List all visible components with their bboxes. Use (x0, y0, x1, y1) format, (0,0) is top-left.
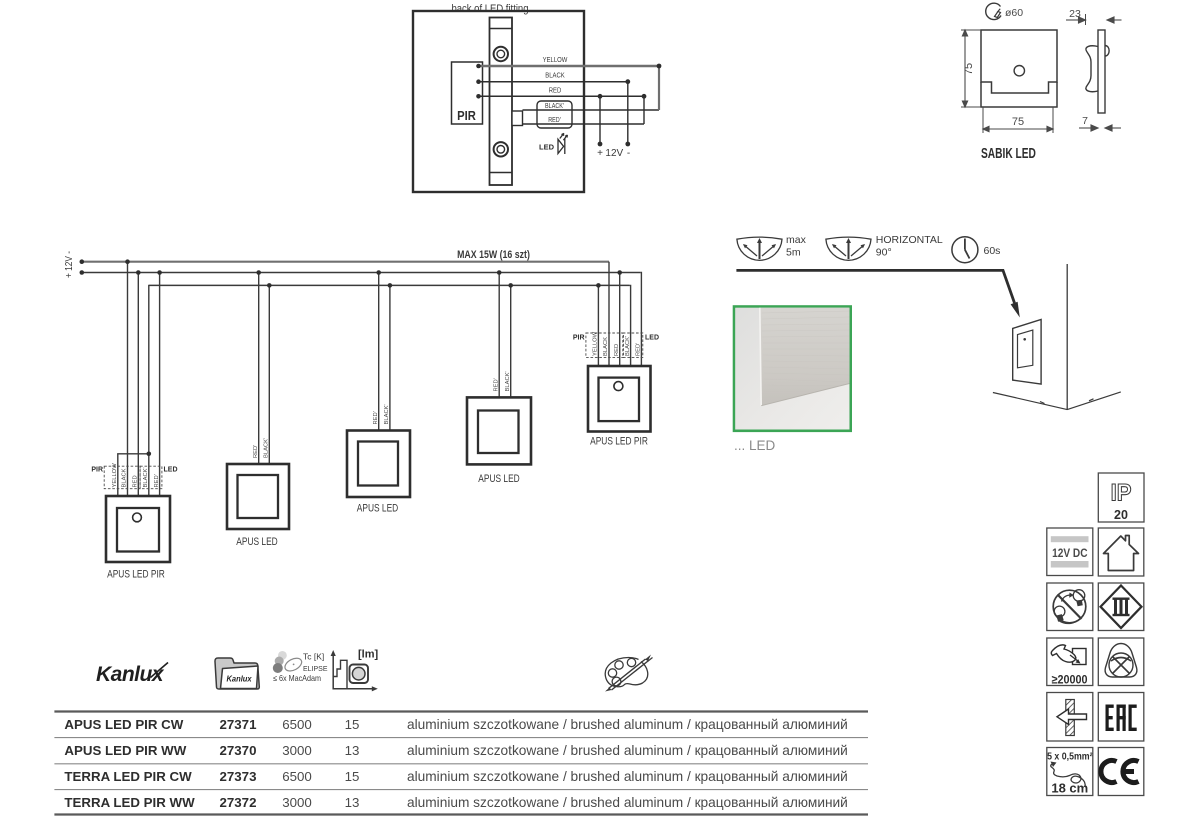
aluminium panel in photo (760, 308, 850, 406)
svg-text:APUS LED PIR: APUS LED PIR (590, 435, 648, 448)
installation pointer line with arrow (736, 270, 1014, 303)
wire YELLOW (gray) (479, 65, 660, 68)
fixture APUS LED outer frame (347, 431, 410, 498)
LED connector rounded box (537, 101, 572, 128)
svg-text:5m: 5m (786, 247, 801, 259)
svg-text:RED': RED' (548, 117, 561, 125)
front view: lower frame part (981, 82, 1057, 107)
fixture APUS LED outer frame (467, 397, 531, 464)
svg-text:MAX 15W (16 szt): MAX 15W (16 szt) (457, 249, 530, 261)
dimension 23 (1066, 14, 1122, 25)
svg-text:APUS LED PIR WW: APUS LED PIR WW (64, 743, 186, 758)
timer clock icon 60s (952, 237, 978, 263)
svg-text:5 x 0,5mm²: 5 x 0,5mm² (1047, 750, 1092, 762)
dimension 7 (1079, 125, 1121, 131)
table row 4 (64, 795, 847, 810)
LED fitting back panel (enclosure square) (413, 11, 584, 192)
icon box 12V DC (1047, 528, 1093, 576)
svg-text:BLACK: BLACK (603, 337, 609, 356)
floor tick marks (1040, 402, 1045, 404)
svg-text:≥20000: ≥20000 (1052, 674, 1088, 687)
svg-text:PIR: PIR (91, 467, 103, 474)
fixture1 LED dashed terminal box (140, 466, 162, 489)
link wire YELLOW to BLACK' (gray vertical) (658, 66, 660, 110)
fixture APUS LED inner frame (478, 411, 519, 454)
wall fixture sensor dot (1023, 338, 1026, 341)
wall-mounted fixture (perspective) outer (1013, 320, 1041, 385)
table row 3 (64, 769, 847, 784)
icon box EAC mark (1098, 693, 1144, 742)
svg-text:RED': RED' (636, 343, 642, 356)
svg-text:27373: 27373 (220, 769, 257, 784)
svg-text:BLACK: BLACK (545, 72, 565, 80)
fixture APUS LED inner frame (238, 475, 279, 518)
svg-text:23: 23 (1069, 8, 1081, 20)
wire RED to fixture1 (137, 273, 139, 497)
fixture APUS LED outer frame (227, 464, 289, 529)
PIR angle icon (horizontal 90) (826, 237, 871, 260)
screw hole bottom (494, 142, 508, 156)
wire YELLOW to fixture5 (from switched bus) (597, 285, 599, 366)
svg-text:BLACK': BLACK' (545, 103, 564, 111)
wire RED' to fixture1 (159, 273, 161, 497)
fixture APUS LED inner frame (358, 442, 398, 486)
svg-text:≤ 6x MacAdam: ≤ 6x MacAdam (273, 674, 321, 684)
svg-text:SABIK LED: SABIK LED (981, 144, 1036, 162)
svg-text:12V: 12V (605, 148, 623, 159)
PIR sensor module box (452, 62, 483, 124)
svg-text:PIR: PIR (573, 335, 585, 342)
fixture APUS LED PIR PIR sensor (133, 513, 142, 522)
icon box through wiring (1047, 693, 1093, 742)
svg-text:... LED: ... LED (734, 438, 776, 453)
product photo (brushed aluminium) (734, 307, 851, 431)
svg-text:aluminium szczotkowane / brush: aluminium szczotkowane / brushed aluminu… (407, 717, 848, 732)
fixture APUS LED PIR outer frame (588, 366, 651, 432)
vertical dimension 75 (961, 30, 981, 107)
svg-text:RED': RED' (373, 411, 379, 424)
svg-text:13: 13 (345, 795, 360, 810)
svg-text:90°: 90° (876, 247, 892, 259)
svg-text:LED: LED (164, 467, 178, 474)
svg-text:IP: IP (1111, 479, 1132, 506)
svg-text:20: 20 (1114, 508, 1128, 522)
wire BLACK' (523, 109, 660, 111)
svg-text:back of LED fitting: back of LED fitting (451, 4, 528, 16)
svg-text:7: 7 (1082, 115, 1088, 127)
svg-text:BLACK': BLACK' (384, 404, 390, 424)
+12V supply terminal wires (599, 96, 601, 144)
wire BLACK' to fixture3 (389, 285, 391, 430)
PIR terminal dots (476, 64, 481, 69)
colour palette icon (605, 655, 653, 692)
svg-text:TERRA LED PIR CW: TERRA LED PIR CW (64, 769, 192, 784)
wire BLACK' to fixture5 (switched bus end) (630, 285, 631, 366)
svg-text:LED: LED (645, 335, 659, 342)
mounting bar bottom cap line (490, 172, 513, 174)
specification table frame (54, 710, 868, 712)
table row 1 (64, 717, 847, 732)
colour tolerance icon (MacAdam ellipse) (278, 651, 287, 660)
fixture5 PIR dashed terminal box (586, 333, 624, 357)
bus wire minus (gray) (82, 261, 609, 263)
svg-text:APUS LED: APUS LED (357, 502, 398, 515)
svg-text:aluminium szczotkowane / brush: aluminium szczotkowane / brushed aluminu… (407, 743, 848, 758)
svg-text:APUS LED: APUS LED (478, 473, 519, 486)
svg-text:PIR: PIR (457, 108, 476, 123)
svg-text:18 cm: 18 cm (1051, 781, 1088, 796)
svg-text:75: 75 (1012, 116, 1024, 128)
mounting bar top cap line (490, 28, 513, 30)
icon box protection class III (1098, 583, 1144, 631)
fixture5 LED dashed terminal box (623, 333, 643, 357)
icon box CE mark (1098, 748, 1144, 796)
svg-text:[lm]: [lm] (358, 649, 379, 661)
svg-text:+: + (597, 148, 603, 159)
bus wire plus (82, 272, 641, 274)
svg-text:13: 13 (345, 743, 360, 758)
svg-text:APUS LED PIR: APUS LED PIR (107, 568, 165, 581)
fixture APUS LED PIR outer frame (106, 496, 170, 562)
svg-text:12V DC: 12V DC (1052, 547, 1088, 560)
wire YELLOW of fixture1 linking to BLACK junction (118, 454, 149, 496)
drill hole icon (986, 3, 1001, 19)
svg-text:-: - (627, 148, 630, 159)
svg-text:60s: 60s (984, 245, 1001, 257)
bus terminal dots (80, 259, 85, 264)
svg-text:LED: LED (539, 143, 555, 152)
svg-text:HORIZONTAL: HORIZONTAL (876, 234, 943, 246)
floor line left (993, 393, 1067, 410)
svg-text:TERRA LED PIR WW: TERRA LED PIR WW (64, 795, 195, 810)
svg-text:ø60: ø60 (1005, 7, 1023, 19)
wall-mounted fixture inner (1018, 330, 1033, 368)
wire RED' to fixture5 (plus bus end) (640, 273, 643, 367)
svg-text:ELIPSE: ELIPSE (303, 666, 328, 673)
svg-text:3000: 3000 (282, 743, 312, 758)
wire RED' to fixture4 (498, 273, 500, 398)
icon box not for flammable surfaces (1098, 638, 1144, 686)
fixture APUS LED PIR PIR sensor (614, 382, 623, 391)
svg-text:BLACK': BLACK' (505, 371, 511, 391)
svg-text:YELLOW: YELLOW (593, 331, 599, 356)
svg-text:6500: 6500 (282, 717, 312, 732)
fixture APUS LED PIR inner frame (117, 508, 159, 552)
svg-text:aluminium szczotkowane / brush: aluminium szczotkowane / brushed aluminu… (407, 769, 848, 784)
wire RED (479, 95, 645, 97)
svg-text:BLACK: BLACK (122, 468, 128, 487)
wire BLACK' to fixture1 (from switched bus elbow) (148, 285, 150, 496)
mounting bar (490, 18, 513, 186)
svg-text:BLACK': BLACK' (625, 336, 631, 356)
svg-text:27372: 27372 (220, 795, 257, 810)
side view: sensor bump (1105, 46, 1109, 57)
svg-text:YELLOW: YELLOW (112, 463, 118, 488)
fixture APUS LED PIR inner frame (599, 378, 640, 422)
link wire RED to RED' (vertical) (643, 96, 645, 124)
screw hole top (494, 47, 508, 61)
icon box IP20 (1098, 473, 1144, 522)
horizontal dimension 75 (983, 107, 1053, 133)
icon box light source not replaceable (1047, 583, 1093, 631)
svg-text:Kanlux: Kanlux (227, 674, 253, 683)
wire BLACK to fixture1 (127, 262, 129, 496)
floor line right (1067, 392, 1121, 410)
icon box indoor use (house) (1098, 528, 1144, 576)
svg-text:RED': RED' (493, 378, 499, 391)
wire BLACK' to fixture4 (510, 285, 512, 397)
catalogue folder icon (215, 658, 259, 689)
svg-text:RED: RED (133, 475, 139, 487)
svg-text:Tc [K]: Tc [K] (303, 652, 324, 662)
svg-text:YELLOW: YELLOW (543, 56, 568, 64)
front view: fixture square outline (981, 30, 1057, 93)
svg-text:27370: 27370 (220, 743, 257, 758)
wall corner vertical edge (1066, 264, 1068, 410)
wire RED to fixture5 (619, 273, 621, 367)
fixture1 PIR dashed terminal box (104, 466, 140, 489)
wire RED' to fixture2 (258, 273, 260, 465)
svg-text:6500: 6500 (282, 769, 312, 784)
side view: back plate (1098, 30, 1105, 113)
wire BLACK to fixture5 (minus bus end) (608, 262, 610, 366)
svg-text:RED: RED (614, 344, 620, 356)
svg-text:15: 15 (345, 769, 360, 784)
LED connector tab (512, 111, 523, 126)
PIR range icon (max 5m) (737, 237, 782, 260)
svg-text:BLACK': BLACK' (264, 438, 270, 458)
svg-text:RED': RED' (154, 474, 160, 487)
svg-text:3000: 3000 (282, 795, 312, 810)
svg-text:RED: RED (549, 87, 562, 95)
svg-text:BLACK': BLACK' (143, 467, 149, 487)
side view: housing profile (1086, 46, 1098, 92)
svg-text:RED': RED' (253, 445, 259, 458)
wire RED' to fixture3 (378, 273, 380, 431)
svg-text:15: 15 (345, 717, 360, 732)
svg-text:APUS LED PIR CW: APUS LED PIR CW (64, 717, 183, 732)
table row 2 (64, 743, 847, 758)
svg-text:aluminium szczotkowane / brush: aluminium szczotkowane / brushed aluminu… (407, 795, 848, 810)
icon box switching cycles (1047, 638, 1093, 686)
svg-text:+ 12V -: + 12V - (63, 251, 74, 278)
wire BLACK' to fixture2 (268, 285, 270, 464)
svg-text:APUS LED: APUS LED (236, 536, 277, 549)
svg-text:75: 75 (963, 63, 975, 75)
svg-text:max: max (786, 234, 807, 246)
bus wire switched (sensor line) (149, 284, 630, 286)
front view: PIR lens circle (1014, 66, 1024, 76)
wire BLACK (479, 81, 628, 83)
svg-text:27371: 27371 (220, 717, 258, 732)
icon box connection cable 5x0,5mm2 18cm (1047, 748, 1093, 796)
wire RED' (523, 123, 645, 125)
